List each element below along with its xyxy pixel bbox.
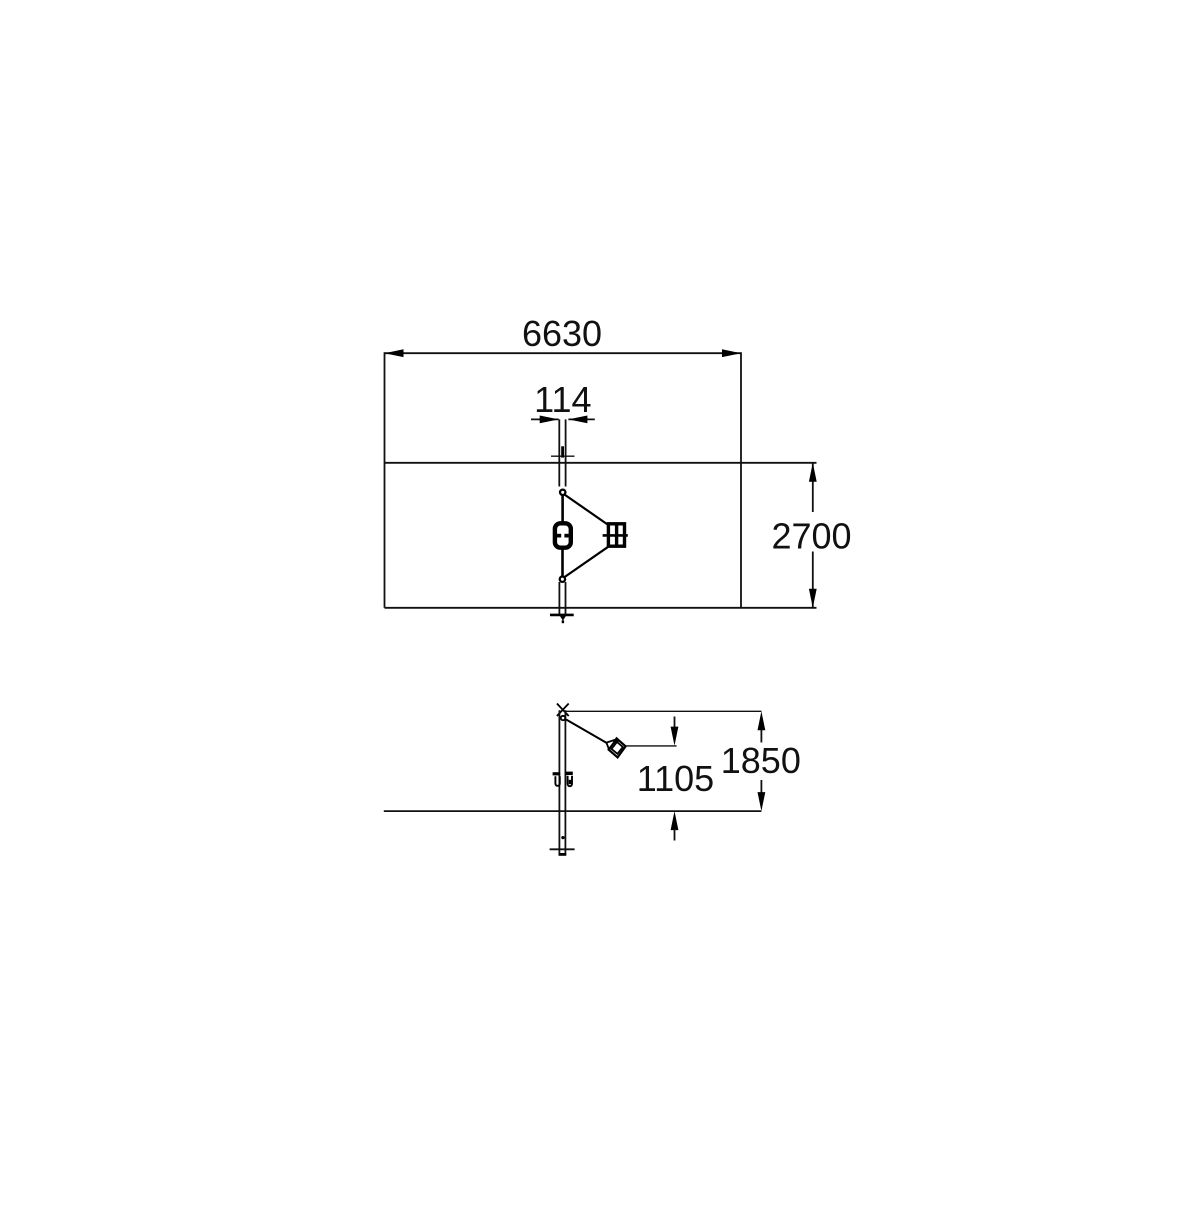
chain lower (plan) — [565, 547, 608, 577]
safety zone rectangle bottom edge (with 2700 extension) — [385, 607, 817, 609]
rope upper segment — [561, 495, 564, 522]
dimension 1105 bottom tail — [674, 829, 676, 841]
pole bottom cap — [559, 853, 567, 856]
pole lines below (plan) — [558, 582, 560, 615]
svg-text:114: 114 — [534, 379, 591, 420]
tyre seat (plan) — [555, 523, 571, 547]
chain upper (plan) — [565, 495, 608, 525]
svg-text:6630: 6630 — [522, 313, 602, 354]
dimension 2700 line upper — [812, 463, 814, 512]
extension line from seat — [626, 745, 677, 747]
bottom bold tick — [550, 614, 574, 617]
svg-text:1850: 1850 — [721, 740, 801, 781]
bottom swivel ring — [560, 577, 565, 582]
burial depth tick — [550, 848, 575, 850]
arrowhead 1105 top (points down, outside) — [671, 727, 679, 746]
chain (side view) — [566, 719, 607, 743]
centre mark on pole — [551, 455, 575, 457]
hook left on pole — [553, 772, 561, 786]
pole anchor dot — [561, 836, 564, 839]
swing seat (plan, end view) — [603, 522, 628, 547]
arrowhead 6630 left — [385, 349, 404, 357]
rope lower segment — [561, 549, 564, 577]
ground line — [384, 810, 762, 812]
dimension 1850 line lower — [760, 780, 762, 793]
swing seat (side view) — [606, 737, 625, 758]
dimension line 6630 — [385, 352, 742, 354]
extension line left (also safety-zone rectangle left edge) — [384, 352, 386, 608]
chain attachment loop — [561, 716, 565, 720]
arrowhead 2700 top (points up) — [809, 463, 817, 482]
dimension 1850 line upper — [760, 729, 762, 743]
pole extension lines (plan) — [558, 419, 560, 486]
dimension line 114 left part — [531, 418, 559, 420]
arrowhead 6630 right — [722, 349, 741, 357]
pole (side view) — [558, 710, 560, 855]
extension line right (safety-zone rectangle right edge) — [740, 352, 742, 608]
dimension line 114 right part — [568, 418, 594, 420]
top swivel ring — [560, 490, 565, 495]
arrowhead 2700 bottom (points down) — [809, 589, 817, 608]
extension line from pole top — [566, 710, 762, 712]
dimension 1105 top tail — [674, 717, 676, 729]
arrowhead 1105 bottom (points up, outside) — [671, 811, 679, 830]
safety zone rectangle top edge (with 2700 extension) — [385, 462, 817, 464]
svg-text:2700: 2700 — [771, 516, 851, 557]
arrowhead 1850 bottom (points down) — [758, 792, 766, 811]
bottom centreline arrow — [559, 615, 566, 620]
dimension 2700 line lower — [812, 552, 814, 608]
svg-text:1105: 1105 — [637, 758, 714, 799]
arrowhead 1850 top (points up) — [758, 711, 766, 730]
arrowhead 114 right (points left) — [568, 416, 587, 424]
hook right on pole — [565, 772, 573, 787]
pole top X marker — [557, 704, 569, 717]
arrowhead 114 left (points right) — [540, 416, 559, 424]
